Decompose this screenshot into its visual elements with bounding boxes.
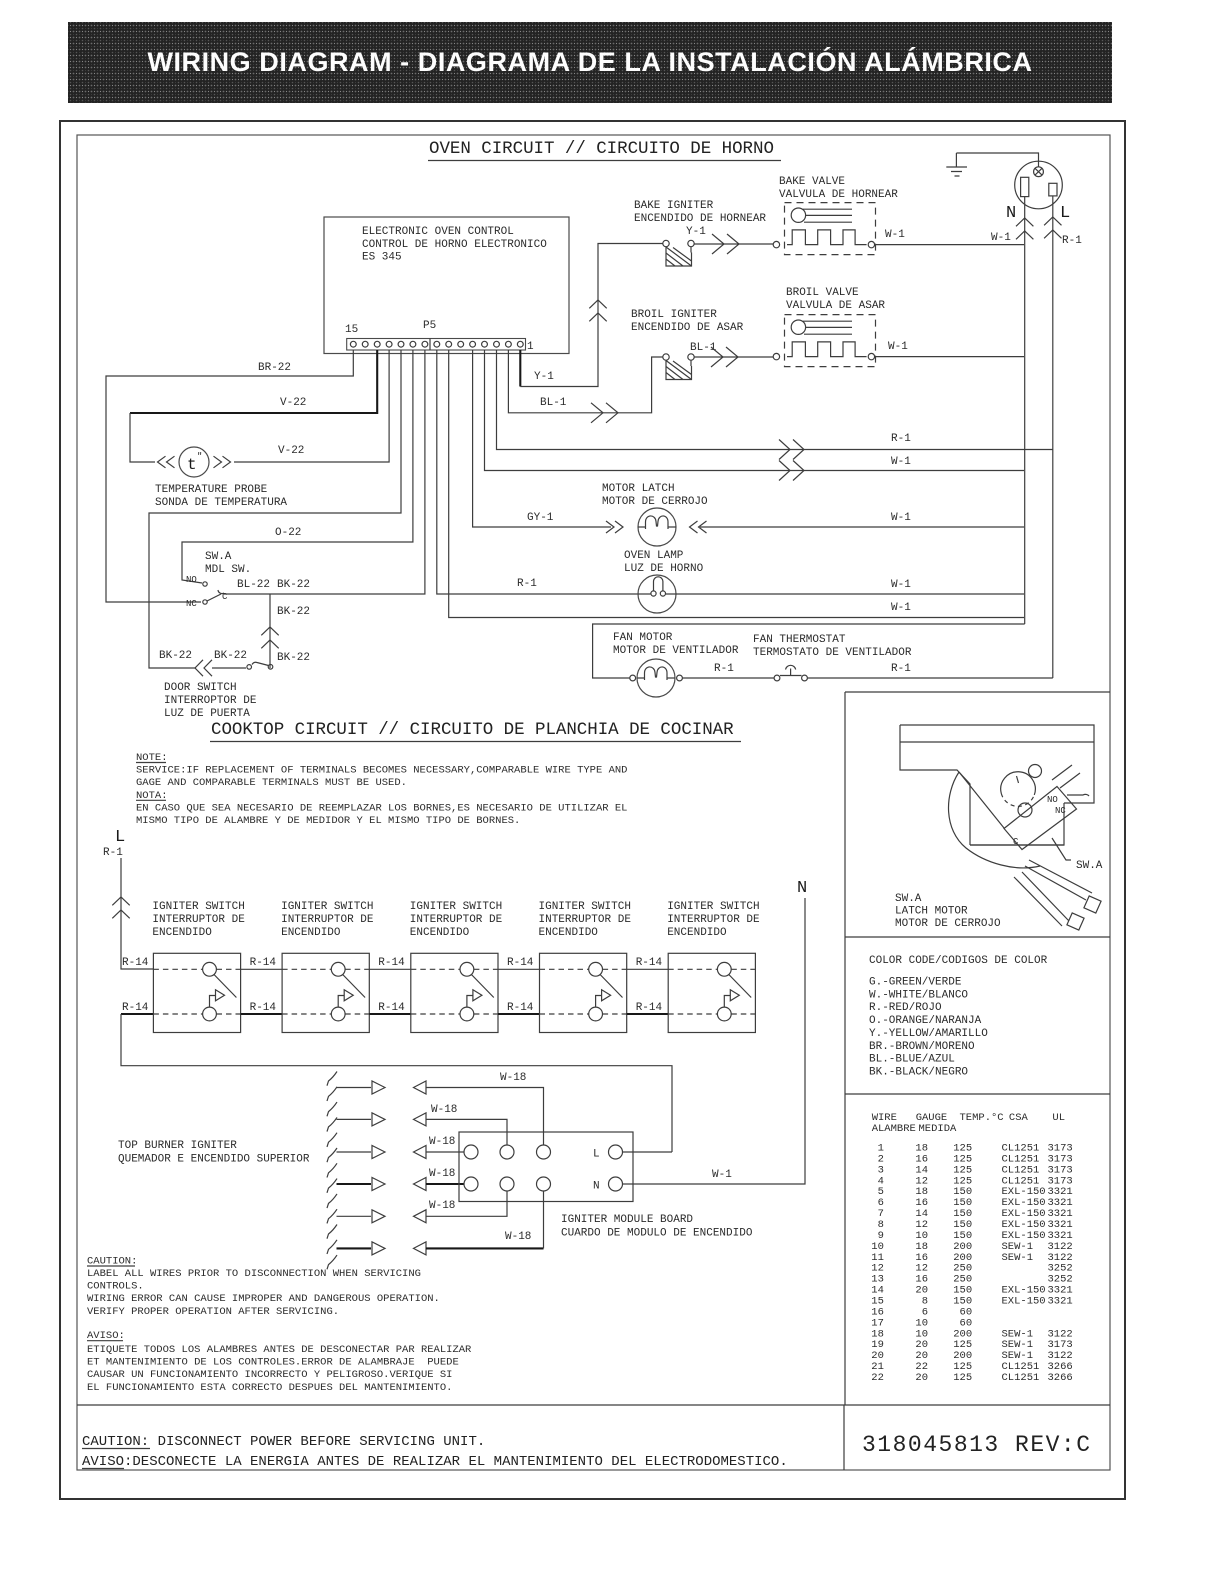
svg-text:MDL SW.: MDL SW.: [205, 564, 251, 576]
svg-text:O-22: O-22: [275, 527, 301, 539]
svg-text:QUEMADOR E ENCENDIDO SUPERIOR: QUEMADOR E ENCENDIDO SUPERIOR: [118, 1154, 310, 1166]
svg-text:t: t: [187, 456, 197, 474]
svg-text:ELECTRONIC OVEN CONTROL: ELECTRONIC OVEN CONTROL: [362, 226, 514, 238]
svg-text:R-14: R-14: [378, 1002, 405, 1014]
svg-text:INTERRUPTOR DE: INTERRUPTOR DE: [539, 914, 632, 926]
section title: OVEN CIRCUIT: [428, 139, 781, 161]
svg-text:NO: NO: [1047, 795, 1058, 805]
wire BK-22 junction to door switch: [261, 594, 310, 668]
electronic oven control ES 345: [324, 217, 569, 354]
svg-text:G.-GREEN/VERDE: G.-GREEN/VERDE: [869, 977, 962, 989]
svg-text:DOOR SWITCH: DOOR SWITCH: [164, 682, 237, 694]
svg-text:ENCENDIDO: ENCENDIDO: [410, 927, 470, 939]
svg-text:L: L: [115, 828, 125, 847]
svg-text:BL-1: BL-1: [540, 397, 567, 409]
svg-text:R-1: R-1: [714, 663, 734, 675]
pin 6: [458, 341, 464, 347]
wire BR-22: pin 15 to NC contact: [106, 350, 353, 602]
wire R-1: pin 7 to oven lamp: [437, 350, 638, 594]
svg-text:ET MANTENIMIENTO DE LOS CONTRO: ET MANTENIMIENTO DE LOS CONTROLES.ERROR …: [87, 1356, 459, 1368]
svg-text:FAN MOTOR: FAN MOTOR: [613, 632, 673, 644]
wire V-22 (bold): pin 13 to probe left: [130, 350, 377, 462]
svg-text:BR.-BROWN/MORENO: BR.-BROWN/MORENO: [869, 1041, 975, 1053]
svg-text:SEW-1: SEW-1: [1002, 1252, 1034, 1264]
svg-text:W-1: W-1: [712, 1169, 732, 1181]
svg-text:EXL-150: EXL-150: [1002, 1296, 1046, 1308]
pin 14: [362, 341, 368, 347]
spark electrode arrow 6: [337, 1242, 386, 1255]
svg-text:Y.-YELLOW/AMARILLO: Y.-YELLOW/AMARILLO: [869, 1028, 988, 1040]
ground: [946, 153, 1038, 176]
wire V-22: probe right to pin 12: [234, 350, 389, 462]
svg-text:MEDIDA: MEDIDA: [919, 1123, 958, 1135]
fan motor: [613, 632, 739, 697]
svg-text:15: 15: [345, 324, 358, 336]
svg-text:ETIQUETE TODOS LOS ALAMBRES AN: ETIQUETE TODOS LOS ALAMBRES ANTES DE DES…: [87, 1344, 472, 1356]
node N: [1006, 204, 1016, 223]
wire BL-22/BK-22: pin 9 to SW.A common: [224, 350, 425, 594]
wire R-14 between switches 1-2: [241, 957, 283, 1014]
motor latch: [602, 483, 708, 546]
svg-text:INTERROPTOR DE: INTERROPTOR DE: [164, 695, 257, 707]
note text: [136, 752, 627, 827]
igniter module board: [459, 1132, 753, 1240]
svg-text:P5: P5: [423, 320, 436, 332]
pin 3: [494, 341, 500, 347]
svg-text:BK.-BLACK/NEGRO: BK.-BLACK/NEGRO: [869, 1066, 968, 1078]
temperature probe: [155, 447, 287, 509]
svg-text:TEMP.°C: TEMP.°C: [960, 1112, 1004, 1124]
wire N vertical to module board: [623, 898, 806, 1184]
connector P5 strip: [345, 320, 534, 353]
svg-text:W-1: W-1: [891, 456, 911, 468]
svg-text:ENCENDIDO DE ASAR: ENCENDIDO DE ASAR: [631, 322, 744, 334]
right info panel frame: [845, 692, 1110, 1405]
svg-text:ENCENDIDO: ENCENDIDO: [281, 927, 341, 939]
bottom caution strip: [82, 1434, 788, 1470]
svg-text:1: 1: [527, 341, 534, 353]
svg-text:L: L: [1060, 204, 1070, 223]
wire W-1: lamp to N: [676, 579, 1024, 594]
svg-text:W-18: W-18: [429, 1136, 455, 1148]
svg-text:R-14: R-14: [378, 957, 405, 969]
svg-text:TOP BURNER IGNITER: TOP BURNER IGNITER: [118, 1140, 237, 1152]
svg-text:FAN THERMOSTAT: FAN THERMOSTAT: [753, 634, 846, 646]
svg-text:C: C: [222, 592, 228, 602]
igniter switch 4: [539, 901, 632, 1033]
igniter switch 5: [667, 901, 760, 1033]
wire R-14 bottom bus to module board L: [121, 1002, 672, 1152]
svg-text:BK-22: BK-22: [277, 652, 310, 664]
svg-text:R-1: R-1: [891, 433, 911, 445]
svg-text:INTERRUPTOR DE: INTERRUPTOR DE: [410, 914, 503, 926]
svg-text:O.-ORANGE/NARANJA: O.-ORANGE/NARANJA: [869, 1015, 982, 1027]
svg-text:BR-22: BR-22: [258, 362, 291, 374]
pin 8: [434, 341, 440, 347]
svg-text:BL.-BLUE/AZUL: BL.-BLUE/AZUL: [869, 1054, 955, 1066]
pin 7: [446, 341, 452, 347]
svg-text:TERMOSTATO DE VENTILADOR: TERMOSTATO DE VENTILADOR: [753, 647, 912, 659]
svg-text:W-18: W-18: [500, 1072, 526, 1084]
svg-text:TEMPERATURE PROBE: TEMPERATURE PROBE: [155, 484, 268, 496]
fan thermostat: [753, 634, 912, 681]
wire BK-22: pin 11 to door switch left: [149, 350, 401, 668]
wire L vertical: [1044, 196, 1082, 678]
wire R-14 between switches 3-4: [498, 957, 540, 1014]
svg-text:COOKTOP CIRCUIT // CIRCUITO DE: COOKTOP CIRCUIT // CIRCUITO DE PLANCHIA …: [211, 720, 734, 740]
latch motor mechanism drawing: [895, 725, 1103, 930]
wire W-1: bake valve to N: [875, 229, 1024, 245]
pin 13: [374, 341, 380, 347]
wire R-1: fan motor to thermostat: [682, 663, 774, 678]
broil igniter: [631, 309, 744, 380]
svg-text:C: C: [1013, 837, 1019, 847]
inner diagram border: [77, 135, 1110, 1470]
svg-text:R-14: R-14: [250, 1002, 277, 1014]
pin 12: [386, 341, 392, 347]
svg-text:BROIL IGNITER: BROIL IGNITER: [631, 309, 717, 321]
svg-text:W-18: W-18: [429, 1168, 455, 1180]
bottom caution strip frame: [77, 1405, 1110, 1470]
wire R-14 between switches 4-5: [627, 957, 669, 1014]
svg-text:R-14: R-14: [636, 957, 663, 969]
spark electrode arrow 3: [337, 1146, 386, 1159]
pin 11: [398, 341, 404, 347]
wire W-18 row 5: [414, 1191, 508, 1223]
svg-text:R-14: R-14: [636, 1002, 663, 1014]
svg-text:SW.A: SW.A: [1076, 860, 1103, 872]
title banner: [68, 22, 1112, 103]
svg-text:W-1: W-1: [891, 602, 911, 614]
svg-text:EL FUNCIONAMIENTO ESTA CORRECT: EL FUNCIONAMIENTO ESTA CORRECTO DESPUES …: [87, 1382, 452, 1394]
svg-text:GY-1: GY-1: [527, 512, 554, 524]
svg-text:Y-1: Y-1: [534, 371, 554, 383]
svg-text:W-1: W-1: [891, 579, 911, 591]
svg-text:OVEN LAMP: OVEN LAMP: [624, 550, 684, 562]
svg-text:CL1251: CL1251: [1002, 1372, 1040, 1384]
svg-text:VALVULA DE ASAR: VALVULA DE ASAR: [786, 300, 885, 312]
svg-text:R-14: R-14: [507, 957, 534, 969]
svg-text:SERVICE:IF REPLACEMENT OF TERM: SERVICE:IF REPLACEMENT OF TERMINALS BECO…: [136, 765, 627, 777]
svg-text:R-14: R-14: [122, 1002, 149, 1014]
svg-text:R-1: R-1: [517, 578, 537, 590]
svg-text:EN CASO QUE SEA NECESARIO DE R: EN CASO QUE SEA NECESARIO DE REEMPLAZAR …: [136, 802, 627, 814]
wire R-1 feed to switches: [112, 858, 153, 969]
svg-text:VALVULA DE HORNEAR: VALVULA DE HORNEAR: [779, 189, 898, 201]
svg-text:W-1: W-1: [888, 341, 908, 353]
svg-text:W-1: W-1: [991, 232, 1011, 244]
svg-text:INTERRUPTOR DE: INTERRUPTOR DE: [281, 914, 374, 926]
svg-text:L: L: [593, 1149, 600, 1161]
wire W-18 row 2: [414, 1104, 508, 1145]
svg-text:BAKE VALVE: BAKE VALVE: [779, 176, 845, 188]
svg-text:GAGE AND COMPARABLE TERMINALS: GAGE AND COMPARABLE TERMINALS MUST BE US…: [136, 777, 407, 789]
svg-text:CAUTION: DISCONNECT POWER BEFO: CAUTION: DISCONNECT POWER BEFORE SERVICI…: [82, 1434, 485, 1450]
broil valve: [773, 287, 885, 367]
wire W-18 row 3: [414, 1136, 465, 1159]
svg-text:UL: UL: [1052, 1112, 1065, 1124]
svg-text:INTERRUPTOR DE: INTERRUPTOR DE: [667, 914, 760, 926]
svg-text:COLOR CODE/CODIGOS DE COLOR: COLOR CODE/CODIGOS DE COLOR: [869, 955, 1048, 967]
wire to bake valve: [694, 234, 773, 254]
pin 10: [410, 341, 416, 347]
pin 5: [470, 341, 476, 347]
spark electrode arrow 5: [337, 1210, 386, 1223]
svg-text:R-1: R-1: [1062, 235, 1082, 247]
svg-text:R.-RED/ROJO: R.-RED/ROJO: [869, 1002, 942, 1014]
svg-text:ALAMBRE: ALAMBRE: [872, 1123, 916, 1135]
svg-text:318045813 REV:C: 318045813 REV:C: [862, 1432, 1092, 1458]
svg-text:IGNITER SWITCH: IGNITER SWITCH: [539, 901, 631, 913]
svg-text:IGNITER SWITCH: IGNITER SWITCH: [410, 901, 502, 913]
wire R-14 between switches 2-3: [369, 957, 411, 1014]
wire R-1: pin 3 to L line: [497, 350, 1053, 460]
wire R-1: thermostat to L: [807, 663, 1052, 678]
bake igniter: [634, 200, 766, 266]
svg-text:LATCH MOTOR: LATCH MOTOR: [895, 906, 968, 918]
wire W-18 row 1: [414, 1072, 544, 1145]
svg-text:BK-22: BK-22: [277, 606, 310, 618]
svg-text:ENCENDIDO: ENCENDIDO: [539, 927, 599, 939]
wire W-1: pin 6 to N line (neutral return): [449, 350, 1024, 618]
svg-text:22 20 125: 22 20 125: [865, 1372, 972, 1384]
wire W-18 row 6: [414, 1191, 544, 1255]
svg-text:CSA: CSA: [1009, 1112, 1029, 1124]
svg-text:LABEL ALL WIRES PRIOR TO DISCO: LABEL ALL WIRES PRIOR TO DISCONNECTION W…: [87, 1268, 421, 1280]
svg-text:IGNITER MODULE BOARD: IGNITER MODULE BOARD: [561, 1214, 693, 1226]
caution notes: [87, 1255, 472, 1394]
svg-text:W-18: W-18: [431, 1104, 457, 1116]
pin 4: [482, 341, 488, 347]
svg-text:W-1: W-1: [891, 512, 911, 524]
node L: [1060, 204, 1070, 223]
power plug: [1015, 161, 1063, 209]
igniter switch 3: [410, 901, 503, 1033]
svg-text:WIRING ERROR CAN CAUSE IMPROPE: WIRING ERROR CAN CAUSE IMPROPER AND DANG…: [87, 1293, 440, 1305]
svg-text:3321: 3321: [1048, 1296, 1073, 1308]
svg-text:R-14: R-14: [122, 957, 149, 969]
svg-text:LUZ DE PUERTA: LUZ DE PUERTA: [164, 708, 250, 720]
svg-text:IGNITER SWITCH: IGNITER SWITCH: [152, 901, 244, 913]
svg-text:BK-22: BK-22: [277, 579, 310, 591]
svg-text:R-14: R-14: [250, 957, 277, 969]
svg-text:W-18: W-18: [429, 1200, 455, 1212]
wire gauge table: [865, 1112, 1073, 1384]
wire GY-1: pin 5 to motor latch: [473, 350, 611, 527]
wire to broil valve: [694, 347, 773, 367]
svg-text:W.-WHITE/BLANCO: W.-WHITE/BLANCO: [869, 989, 968, 1001]
svg-text:WIRING DIAGRAM - DIAGRAMA DE L: WIRING DIAGRAM - DIAGRAMA DE LA INSTALAC…: [147, 46, 1032, 77]
svg-text:ʺ: ʺ: [197, 452, 202, 462]
svg-text:BK-22: BK-22: [214, 650, 247, 662]
svg-text:R-1: R-1: [891, 663, 911, 675]
svg-text:BROIL VALVE: BROIL VALVE: [786, 287, 859, 299]
igniter switch 1: [152, 901, 245, 1033]
section title: COOKTOP CIRCUIT: [210, 720, 741, 742]
svg-text:R-14: R-14: [507, 1002, 534, 1014]
wire N vertical: [1016, 197, 1033, 624]
svg-text:AVISO:DESCONECTE LA ENERGIA AN: AVISO:DESCONECTE LA ENERGIA ANTES DE REA…: [82, 1454, 788, 1470]
svg-text:ENCENDIDO: ENCENDIDO: [667, 927, 727, 939]
svg-text:NC: NC: [186, 599, 197, 609]
svg-text:SW.A: SW.A: [895, 893, 922, 905]
svg-text:NO: NO: [186, 575, 197, 585]
switch SW.A (MDL SW): [186, 551, 251, 609]
svg-text:MOTOR DE CERROJO: MOTOR DE CERROJO: [602, 496, 708, 508]
svg-text:BK-22: BK-22: [159, 650, 192, 662]
svg-text:IGNITER SWITCH: IGNITER SWITCH: [281, 901, 373, 913]
spark electrode arrow 1: [337, 1081, 386, 1094]
svg-text:MOTOR DE VENTILADOR: MOTOR DE VENTILADOR: [613, 645, 739, 657]
wire W-1: latch to N: [700, 512, 1024, 527]
svg-text:Y-1: Y-1: [686, 226, 706, 238]
svg-text:ES 345: ES 345: [362, 252, 402, 264]
svg-text:W-18: W-18: [505, 1231, 531, 1243]
svg-text:V-22: V-22: [278, 445, 304, 457]
spark electrode arrow 4: [337, 1178, 386, 1191]
svg-text:N: N: [1006, 204, 1016, 223]
pin 9: [422, 341, 428, 347]
node N (cooktop): [797, 879, 807, 898]
svg-text:OVEN CIRCUIT // CIRCUITO DE HO: OVEN CIRCUIT // CIRCUITO DE HORNO: [429, 139, 774, 159]
svg-text:MOTOR LATCH: MOTOR LATCH: [602, 483, 675, 495]
oven lamp: [624, 550, 704, 613]
svg-text:IGNITER SWITCH: IGNITER SWITCH: [667, 901, 759, 913]
part number 318045813 REV:C: [862, 1432, 1092, 1458]
wire W-1: broil valve to N: [875, 341, 1024, 357]
igniter switch 2: [281, 901, 374, 1033]
spark electrode arrow 2: [337, 1113, 386, 1126]
svg-text:CONTROLS.: CONTROLS.: [87, 1281, 144, 1293]
wire W-18 row 4: [414, 1168, 465, 1191]
wire Y-1: pin 1 to bake igniter: [520, 244, 663, 387]
svg-text:LUZ DE HORNO: LUZ DE HORNO: [624, 563, 704, 575]
top burner igniter: [118, 1072, 337, 1270]
svg-text:MISMO TIPO DE ALAMBRE Y DE MED: MISMO TIPO DE ALAMBRE Y DE MEDIDOR Y EL …: [136, 815, 520, 827]
bake valve: [773, 176, 898, 255]
pin 15: [350, 341, 356, 347]
svg-text:INTERRUPTOR DE: INTERRUPTOR DE: [152, 914, 245, 926]
svg-text:VERIFY PROPER OPERATION AFTER: VERIFY PROPER OPERATION AFTER SERVICING.: [87, 1306, 339, 1318]
wire O-22: pin 10 to SW.A NO contact: [182, 350, 413, 583]
wire W-1: pin 4 to N line: [485, 350, 1025, 481]
svg-text:BAKE IGNITER: BAKE IGNITER: [634, 200, 714, 212]
svg-text:BL-22: BL-22: [237, 579, 270, 591]
pin 1: [517, 341, 523, 347]
svg-text:ENCENDIDO: ENCENDIDO: [152, 927, 212, 939]
svg-text:3266: 3266: [1048, 1372, 1073, 1384]
outer page border: [60, 121, 1125, 1499]
color code legend: [869, 955, 1048, 1078]
svg-text:CONTROL DE HORNO ELECTRONICO: CONTROL DE HORNO ELECTRONICO: [362, 239, 547, 251]
svg-text:SW.A: SW.A: [205, 551, 232, 563]
svg-text:ENCENDIDO DE HORNEAR: ENCENDIDO DE HORNEAR: [634, 213, 766, 225]
svg-text:SONDA DE TEMPERATURA: SONDA DE TEMPERATURA: [155, 497, 287, 509]
svg-text:W-1: W-1: [885, 229, 905, 241]
svg-text:R-1: R-1: [103, 847, 123, 859]
door switch: [159, 650, 310, 720]
svg-text:V-22: V-22: [280, 397, 306, 409]
wire BL-1: pin 2 to broil igniter: [508, 350, 663, 423]
svg-text:CAUSAR UN FUNCIONAMIENTO INCOR: CAUSAR UN FUNCIONAMIENTO INCORRECTO Y PE…: [87, 1369, 452, 1381]
svg-text:MOTOR DE CERROJO: MOTOR DE CERROJO: [895, 918, 1001, 930]
svg-text:CUARDO DE MODULO DE ENCENDIDO: CUARDO DE MODULO DE ENCENDIDO: [561, 1228, 753, 1240]
pin 2: [506, 341, 512, 347]
svg-text:N: N: [797, 879, 807, 898]
node L (cooktop feed): [103, 828, 125, 859]
wire fan loop: [593, 624, 1025, 678]
svg-text:NC: NC: [1055, 806, 1066, 816]
svg-text:N: N: [593, 1181, 600, 1193]
